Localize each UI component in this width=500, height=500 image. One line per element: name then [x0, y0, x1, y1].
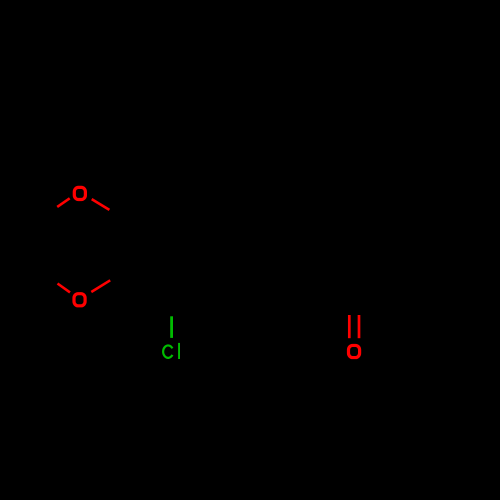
bond O1-C8a right red half [92, 199, 110, 210]
atom O3 (carbonyl oxygen) [349, 345, 360, 357]
atom Cl label: letter l [178, 343, 180, 359]
bond C5-Cl green half [170, 316, 173, 338]
bond C=O double, right red half [358, 315, 361, 338]
bond O2-CH2 left red half [58, 284, 71, 293]
atom Cl label: letter C [163, 345, 172, 357]
bond O2-C4a right red half [91, 280, 110, 292]
atom O1 (top ether oxygen) [74, 187, 85, 199]
wire: black C-C skeleton bonds (invisible on black, drawn for structure) [45, 194, 444, 316]
bond C=O double, left red half [348, 315, 351, 338]
atom O2 (bottom ether oxygen) [74, 294, 85, 306]
bond O1-CH2 left red half [57, 198, 69, 207]
